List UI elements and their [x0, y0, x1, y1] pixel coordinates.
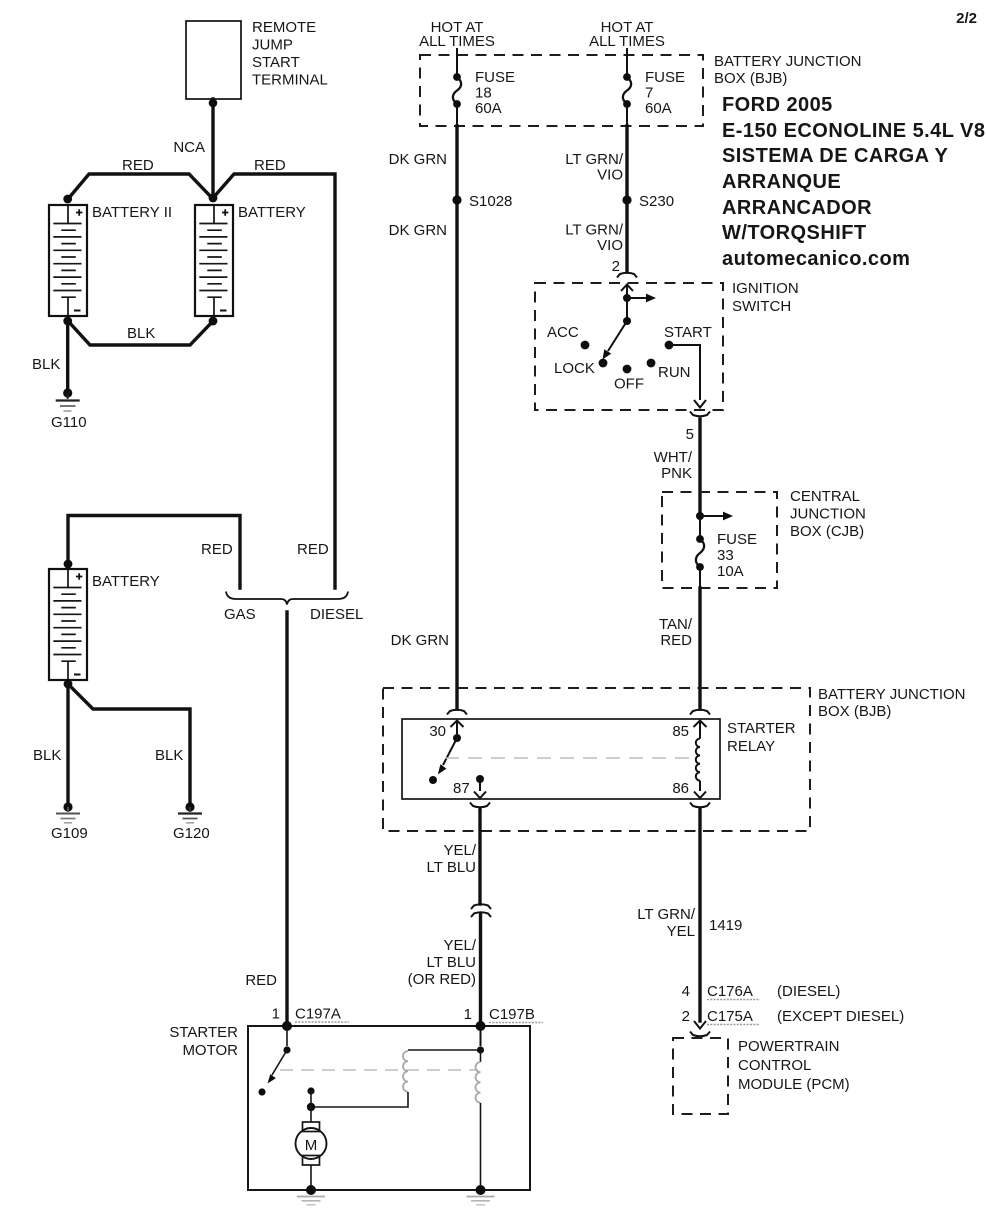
svg-text:E-150 ECONOLINE 5.4L V8: E-150 ECONOLINE 5.4L V8 — [722, 120, 985, 142]
battery B1 — [195, 204, 306, 316]
wire LT GRN/YEL relay to PCM — [637, 809, 742, 1021]
svg-text:60A: 60A — [645, 100, 672, 117]
title text — [722, 94, 985, 270]
pin 2 connector into ignition switch — [612, 258, 637, 278]
fuse F7 60A — [623, 48, 685, 117]
svg-text:STARTER: STARTER — [727, 720, 796, 737]
svg-text:G110: G110 — [51, 414, 87, 431]
svg-text:LT GRN/: LT GRN/ — [637, 906, 696, 923]
svg-text:RUN: RUN — [658, 364, 691, 381]
label HOT AT ALL TIMES (left) — [419, 19, 495, 50]
wire BLK to G109 — [33, 684, 68, 802]
brace GAS/DIESEL — [224, 592, 363, 624]
wire NCA — [173, 99, 217, 196]
ignition feed arrow up — [621, 285, 633, 298]
battery junction box dashed — [383, 686, 966, 831]
node C197B — [476, 1021, 486, 1031]
svg-text:RED: RED — [254, 157, 286, 174]
svg-text:TERMINAL: TERMINAL — [252, 72, 328, 89]
svg-text:REMOTE: REMOTE — [252, 19, 316, 36]
connector out of relay 87 — [470, 803, 490, 808]
wire RED battery3 to GAS — [68, 516, 240, 589]
svg-text:2/2: 2/2 — [956, 10, 977, 27]
ignition switch dashed box — [535, 280, 799, 410]
svg-text:RED: RED — [122, 157, 154, 174]
splice S230 — [622, 193, 674, 210]
relay mechanical link dashed — [445, 757, 690, 759]
solenoid hold-in winding — [476, 1050, 481, 1187]
svg-text:FUSE: FUSE — [475, 69, 515, 86]
svg-text:RELAY: RELAY — [727, 738, 775, 755]
svg-text:7: 7 — [645, 85, 653, 102]
wire BLK to G120 — [68, 684, 190, 802]
wire TAN/RED CJB to relay 85 — [659, 566, 700, 709]
contact ACC — [547, 324, 589, 349]
svg-text:(OR RED): (OR RED) — [408, 971, 476, 988]
svg-text:TAN/: TAN/ — [659, 616, 693, 633]
svg-text:G109: G109 — [51, 825, 88, 842]
pin 5 connector out of ignition — [686, 412, 710, 444]
connector out of relay 86 — [690, 803, 710, 808]
accessory feed arrow right — [627, 294, 656, 303]
svg-text:MODULE (PCM): MODULE (PCM) — [738, 1076, 850, 1093]
starter solenoid switch — [258, 1026, 290, 1096]
svg-text:SISTEMA DE CARGA Y: SISTEMA DE CARGA Y — [722, 145, 948, 167]
svg-text:MOTOR: MOTOR — [182, 1042, 238, 1059]
connector into relay pin 30 — [429, 710, 467, 740]
ignition switch blade — [603, 321, 628, 360]
svg-text:IGNITION: IGNITION — [732, 280, 799, 297]
connector C176A pin 4 label — [682, 983, 841, 1000]
svg-text:C197A: C197A — [295, 1006, 341, 1023]
svg-text:60A: 60A — [475, 100, 502, 117]
starter relay box — [402, 719, 796, 799]
svg-text:BOX (BJB): BOX (BJB) — [818, 703, 891, 720]
svg-text:2: 2 — [682, 1008, 690, 1025]
svg-text:(DIESEL): (DIESEL) — [777, 983, 840, 1000]
connector C197B pin 1 — [464, 1006, 543, 1023]
contact OFF — [614, 365, 644, 393]
svg-text:LT GRN/: LT GRN/ — [565, 151, 624, 168]
central junction box dashed — [662, 488, 866, 588]
solenoid mechanical link dashed — [280, 1069, 478, 1071]
svg-text:BLK: BLK — [127, 325, 155, 342]
svg-text:BATTERY JUNCTION: BATTERY JUNCTION — [714, 53, 862, 70]
battery junction box (top) dashed — [420, 53, 862, 126]
svg-text:86: 86 — [672, 780, 689, 797]
svg-text:SWITCH: SWITCH — [732, 298, 791, 315]
svg-text:CONTROL: CONTROL — [738, 1057, 811, 1074]
node solenoid contact — [307, 1087, 314, 1094]
svg-text:RED: RED — [297, 541, 329, 558]
relay 87 output arrow — [453, 775, 486, 798]
wire LT GRN/VIO fuse7 to ignition switch — [565, 104, 627, 272]
label HOT AT ALL TIMES (right) — [589, 19, 665, 50]
svg-text:FORD 2005: FORD 2005 — [722, 94, 833, 116]
wire to motor — [310, 1091, 312, 1122]
svg-text:YEL/: YEL/ — [443, 842, 476, 859]
svg-text:RED: RED — [660, 632, 692, 649]
arrow into PCM — [690, 1021, 710, 1036]
ground G110 — [51, 388, 87, 431]
node CJB feed — [696, 512, 704, 520]
solenoid winding ground — [467, 1185, 495, 1205]
svg-text:S1028: S1028 — [469, 193, 512, 210]
contact relay 87 fixed — [429, 776, 437, 784]
svg-text:GAS: GAS — [224, 606, 256, 623]
wire to wiper pivot — [626, 298, 628, 321]
svg-text:DK GRN: DK GRN — [389, 151, 447, 168]
svg-text:(EXCEPT DIESEL): (EXCEPT DIESEL) — [777, 1008, 904, 1025]
svg-text:S230: S230 — [639, 193, 674, 210]
wire WHT/PNK ignition to CJB — [654, 419, 700, 516]
CJB distribution arrow right — [700, 512, 733, 521]
svg-text:ALL TIMES: ALL TIMES — [589, 33, 665, 50]
node battery positive — [209, 194, 218, 203]
wire BLK to G110 — [32, 321, 68, 389]
node battery II positive — [63, 195, 72, 204]
svg-text:G120: G120 — [173, 825, 210, 842]
svg-text:M: M — [305, 1137, 318, 1154]
ground G120 — [173, 802, 210, 842]
svg-text:POWERTRAIN: POWERTRAIN — [738, 1038, 839, 1055]
svg-text:1: 1 — [464, 1006, 472, 1023]
label pin 1 C197A — [272, 1006, 349, 1023]
starter motor box — [169, 1024, 530, 1190]
svg-text:BATTERY: BATTERY — [92, 573, 160, 590]
relay coil 85-86 — [696, 739, 700, 781]
svg-text:BATTERY II: BATTERY II — [92, 204, 172, 221]
svg-text:VIO: VIO — [597, 167, 623, 184]
motor case ground — [297, 1185, 325, 1205]
svg-text:PNK: PNK — [661, 465, 692, 482]
svg-text:RED: RED — [201, 541, 233, 558]
wire RED battery II to battery — [68, 157, 212, 199]
svg-text:BATTERY: BATTERY — [238, 204, 306, 221]
motor M1 — [296, 1122, 327, 1187]
svg-text:JUMP: JUMP — [252, 37, 293, 54]
connector C175A pin 2 label — [682, 1008, 905, 1025]
svg-text:C197B: C197B — [489, 1006, 535, 1023]
relay 86 output arrow — [672, 780, 706, 798]
node battery II negative — [63, 317, 72, 326]
svg-text:87: 87 — [453, 780, 470, 797]
svg-text:BOX (CJB): BOX (CJB) — [790, 523, 864, 540]
contact START — [664, 324, 712, 349]
svg-text:DK GRN: DK GRN — [391, 632, 449, 649]
contact RUN — [647, 359, 691, 381]
node battery3 positive — [64, 560, 73, 569]
battery B3 — [49, 569, 160, 680]
wire RED brace to starter motor — [245, 612, 287, 1026]
node motor feed junction — [307, 1103, 315, 1111]
wire YEL/LT BLU (OR RED) to starter — [408, 914, 481, 1026]
svg-text:C176A: C176A — [707, 983, 753, 1000]
node wiper pivot — [623, 317, 631, 325]
svg-text:LT GRN/: LT GRN/ — [565, 222, 624, 239]
svg-text:RED: RED — [245, 972, 277, 989]
svg-text:10A: 10A — [717, 563, 744, 580]
node C197A — [282, 1021, 292, 1031]
svg-text:START: START — [664, 324, 712, 341]
svg-text:ARRANCADOR: ARRANCADOR — [722, 197, 872, 219]
relay switch blade — [438, 738, 457, 775]
svg-text:YEL/: YEL/ — [443, 937, 476, 954]
node battery negative — [209, 317, 218, 326]
ground G109 — [51, 802, 88, 842]
svg-text:ARRANQUE: ARRANQUE — [722, 171, 841, 193]
wire RED battery to diesel brace — [213, 157, 335, 588]
svg-text:JUNCTION: JUNCTION — [790, 506, 866, 523]
solenoid pull-in winding — [315, 1050, 477, 1107]
svg-text:BOX (BJB): BOX (BJB) — [714, 70, 787, 87]
fuse F18 60A — [453, 48, 515, 117]
svg-text:OFF: OFF — [614, 376, 644, 393]
svg-text:automecanico.com: automecanico.com — [722, 248, 910, 270]
svg-text:1: 1 — [272, 1006, 280, 1023]
svg-text:4: 4 — [682, 983, 690, 1000]
remote jump start terminal box — [186, 19, 328, 99]
wire YEL/LT BLU relay to connector — [427, 809, 480, 904]
svg-text:LOCK: LOCK — [554, 360, 595, 377]
svg-text:BATTERY JUNCTION: BATTERY JUNCTION — [818, 686, 966, 703]
svg-text:CENTRAL: CENTRAL — [790, 488, 860, 505]
fuse F33 10A — [696, 516, 757, 580]
svg-text:START: START — [252, 54, 300, 71]
svg-text:VIO: VIO — [597, 237, 623, 254]
node battery3 negative — [64, 680, 73, 689]
wire START output — [669, 345, 706, 408]
node relay 30 — [453, 734, 461, 742]
svg-text:ALL TIMES: ALL TIMES — [419, 33, 495, 50]
splice S1028 — [452, 193, 512, 210]
svg-text:1419: 1419 — [709, 917, 742, 934]
svg-text:33: 33 — [717, 547, 734, 564]
wire DK GRN fuse18 to relay 30 — [389, 104, 457, 709]
svg-text:2: 2 — [612, 258, 620, 275]
svg-text:BLK: BLK — [155, 747, 183, 764]
svg-text:LT BLU: LT BLU — [427, 954, 476, 971]
svg-text:W/TORQSHIFT: W/TORQSHIFT — [722, 222, 867, 244]
svg-text:LT BLU: LT BLU — [427, 859, 476, 876]
svg-text:18: 18 — [475, 85, 492, 102]
battery B-II — [49, 204, 172, 316]
svg-text:C175A: C175A — [707, 1008, 753, 1025]
svg-text:DK GRN: DK GRN — [389, 222, 447, 239]
in-line connector C (YEL/LT BLU) — [471, 904, 491, 917]
wire C197B into solenoid — [477, 1026, 484, 1054]
node ignition feed — [623, 294, 631, 302]
svg-text:ACC: ACC — [547, 324, 579, 341]
wire BLK between battery bottoms — [68, 321, 213, 345]
connector into relay pin 85 — [672, 710, 710, 740]
svg-text:FUSE: FUSE — [717, 531, 757, 548]
contact LOCK — [554, 359, 607, 377]
svg-text:STARTER: STARTER — [169, 1024, 238, 1041]
svg-text:YEL: YEL — [667, 923, 695, 940]
svg-text:30: 30 — [429, 723, 446, 740]
svg-text:NCA: NCA — [173, 139, 205, 156]
svg-text:WHT/: WHT/ — [654, 449, 693, 466]
powertrain control module dashed box — [673, 1038, 850, 1114]
svg-text:5: 5 — [686, 426, 694, 443]
svg-text:BLK: BLK — [32, 356, 60, 373]
svg-text:DIESEL: DIESEL — [310, 606, 363, 623]
svg-text:85: 85 — [672, 723, 689, 740]
svg-text:FUSE: FUSE — [645, 69, 685, 86]
svg-text:BLK: BLK — [33, 747, 61, 764]
